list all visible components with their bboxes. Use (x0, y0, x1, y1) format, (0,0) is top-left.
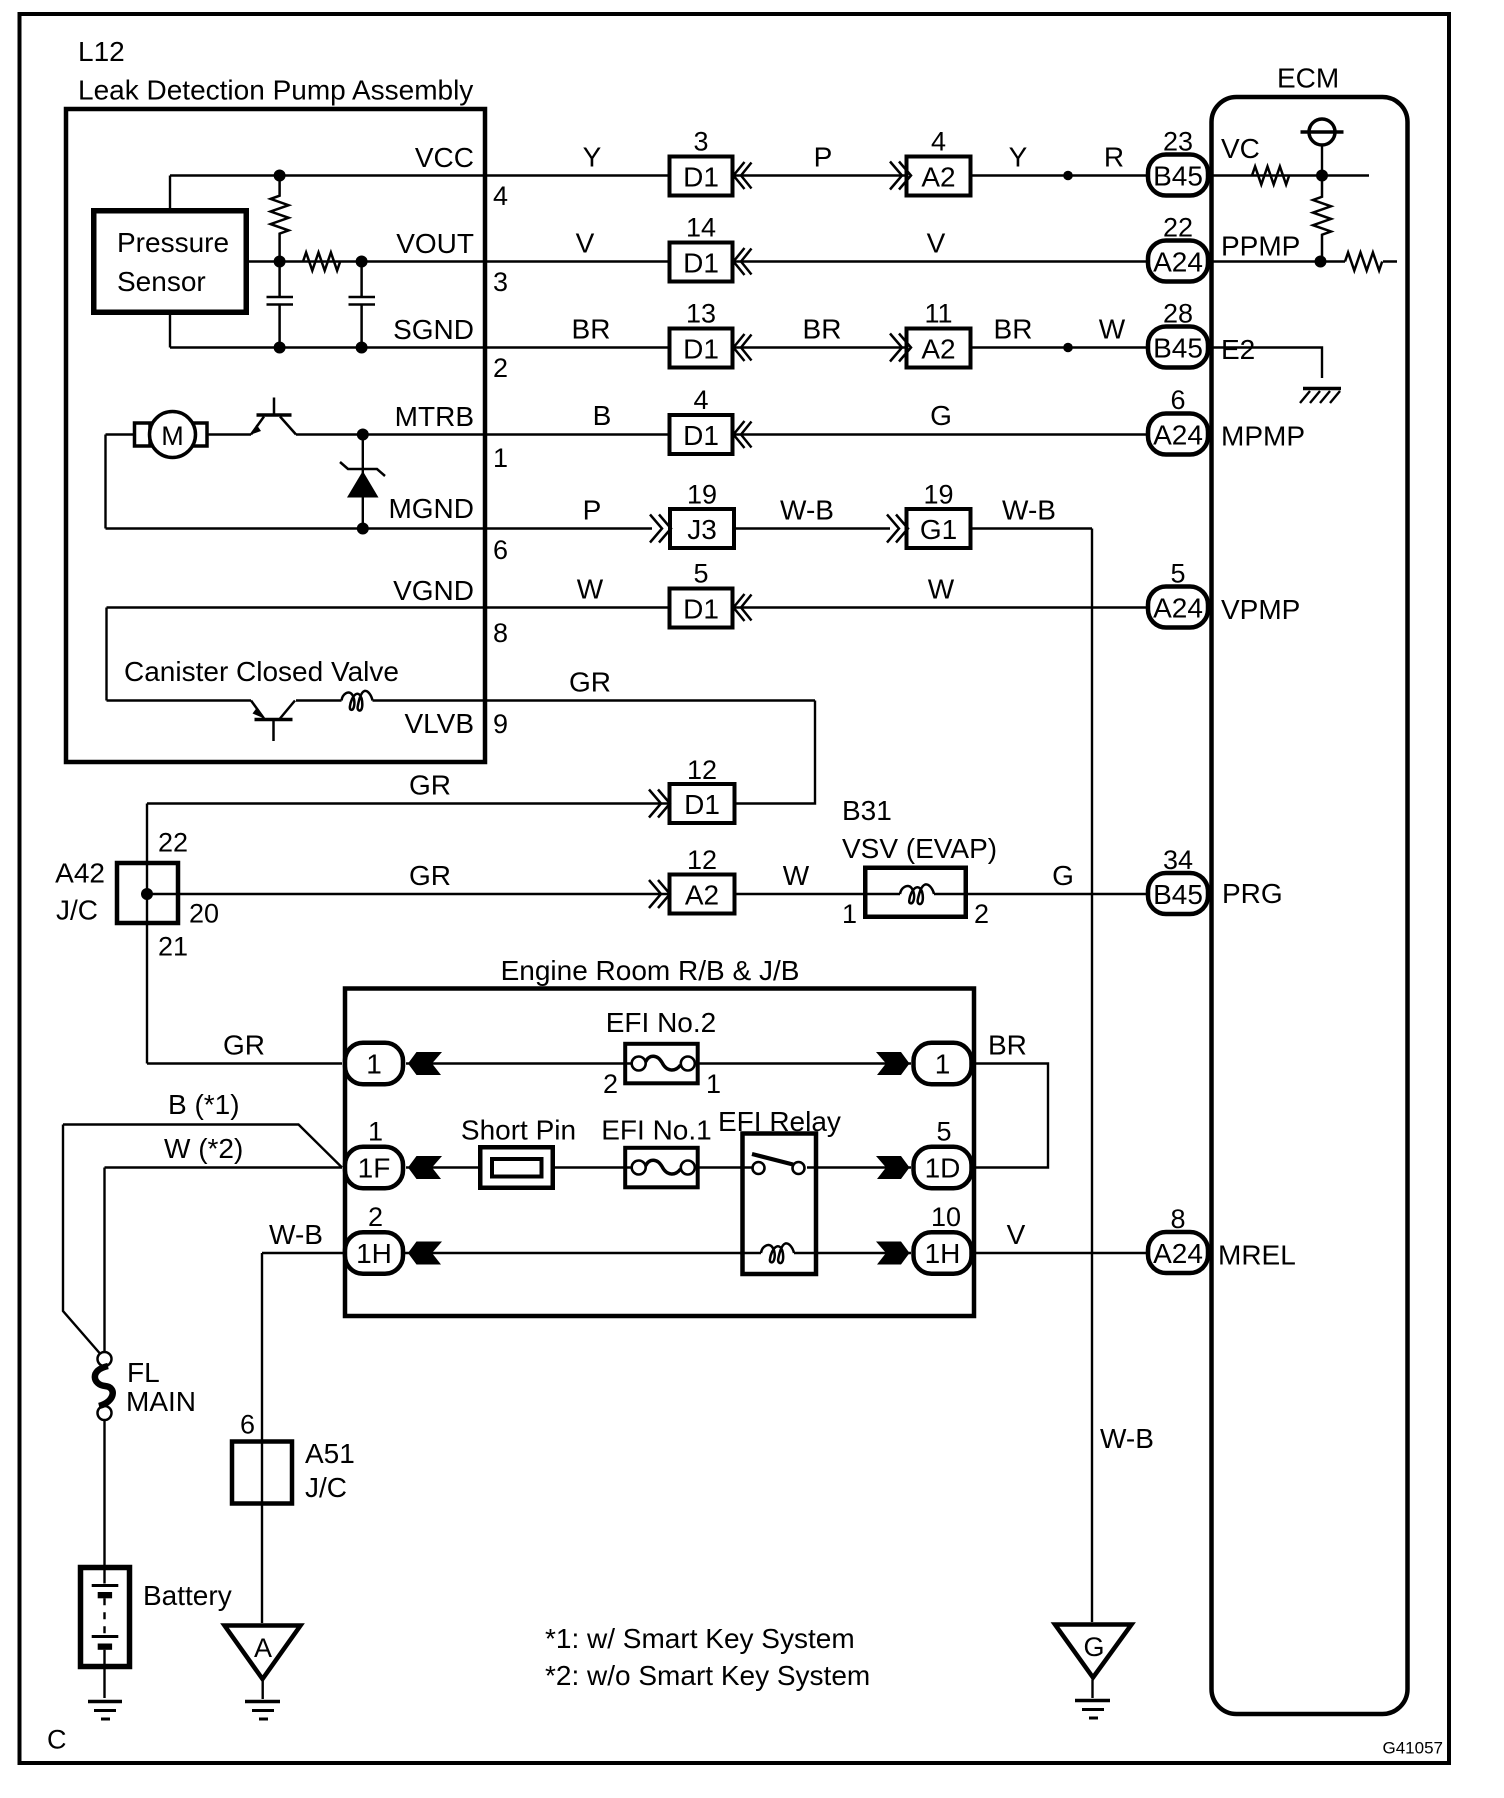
svg-text:12: 12 (687, 755, 717, 785)
svg-text:VOUT: VOUT (396, 228, 474, 259)
svg-text:Y: Y (1009, 142, 1028, 173)
wire MGND row (106, 527, 1093, 529)
wire E2 inside ECM (1211, 348, 1322, 379)
wire W vertical left (103, 1168, 105, 1353)
connector B45 row E2 (1148, 299, 1208, 368)
svg-text:22: 22 (158, 828, 188, 858)
engine room box (345, 989, 974, 1317)
svg-text:1F: 1F (358, 1153, 391, 1184)
arrow into oval 1F (408, 1156, 442, 1179)
svg-text:VSV (EVAP): VSV (EVAP) (842, 833, 997, 864)
svg-text:2: 2 (974, 899, 989, 929)
svg-text:J/C: J/C (305, 1472, 347, 1503)
svg-text:W-B: W-B (1002, 495, 1056, 526)
svg-text:6: 6 (1170, 385, 1185, 415)
svg-text:1: 1 (366, 1049, 382, 1080)
svg-text:5: 5 (936, 1117, 951, 1147)
junction A51 J/C (232, 1410, 355, 1504)
connector oval 1H right (914, 1202, 972, 1274)
wire engine row2 (406, 1166, 911, 1168)
svg-text:W-B: W-B (269, 1219, 323, 1250)
svg-text:A51: A51 (305, 1438, 355, 1469)
svg-text:W: W (783, 860, 810, 891)
ECM box (1212, 97, 1408, 1714)
ground triangle A (225, 1626, 301, 1720)
svg-text:1H: 1H (356, 1238, 392, 1269)
svg-text:B31: B31 (842, 795, 892, 826)
connector D1 row VOUT (670, 213, 752, 282)
node MTRB junction (357, 429, 369, 441)
svg-text:D1: D1 (683, 162, 719, 193)
svg-text:23: 23 (1163, 127, 1193, 157)
svg-text:G: G (930, 400, 952, 431)
arrow into oval 1D (876, 1156, 910, 1179)
svg-text:EFI No.1: EFI No.1 (601, 1115, 711, 1146)
svg-text:G: G (1052, 860, 1074, 891)
svg-text:MPMP: MPMP (1221, 421, 1305, 452)
fuse EFI No.1 (601, 1115, 711, 1188)
svg-text:V: V (1007, 1219, 1026, 1250)
connector A24 row VPMP (1148, 559, 1208, 628)
svg-text:A2: A2 (921, 334, 955, 365)
svg-text:D1: D1 (683, 594, 719, 625)
svg-text:Battery: Battery (143, 1580, 232, 1611)
wire BR corner (974, 1064, 1048, 1168)
wire VGND row (107, 606, 1147, 608)
zener diode D2 (340, 435, 385, 529)
svg-text:J/C: J/C (56, 895, 98, 926)
svg-text:V: V (927, 228, 946, 259)
svg-text:9: 9 (493, 709, 508, 739)
svg-text:D1: D1 (683, 334, 719, 365)
svg-text:E2: E2 (1221, 334, 1255, 365)
svg-text:Canister Closed Valve: Canister Closed Valve (124, 656, 399, 687)
power symbol (1301, 119, 1344, 176)
svg-text:W-B: W-B (780, 495, 834, 526)
resistor R1 vertical (271, 176, 289, 262)
motor M (135, 412, 208, 458)
svg-text:MAIN: MAIN (126, 1386, 196, 1417)
svg-text:20: 20 (189, 899, 219, 929)
wire PPMP inside ECM (1211, 260, 1397, 262)
svg-text:W: W (1099, 314, 1126, 345)
svg-text:EFI No.2: EFI No.2 (606, 1007, 716, 1038)
svg-text:B45: B45 (1153, 333, 1203, 364)
svg-text:A42: A42 (55, 858, 105, 889)
node splice VCC (1063, 171, 1073, 181)
svg-text:W-B: W-B (1100, 1423, 1154, 1454)
arrow into oval 1 (408, 1052, 442, 1075)
svg-text:J3: J3 (687, 514, 717, 545)
wire VLVB row (107, 699, 816, 701)
svg-text:3: 3 (693, 127, 708, 157)
node MGND junction (357, 523, 369, 535)
connector D1 row VCC (670, 127, 752, 196)
svg-text:GR: GR (409, 770, 451, 801)
svg-text:GR: GR (409, 860, 451, 891)
connector oval 1 left (345, 1043, 403, 1085)
relay EFI (718, 1106, 841, 1274)
svg-text:28: 28 (1163, 299, 1193, 329)
svg-text:G1: G1 (920, 514, 957, 545)
svg-text:R: R (1104, 142, 1124, 173)
arrow into right oval 1 (876, 1052, 910, 1075)
resistor PPMP (1345, 253, 1382, 271)
svg-text:B: B (593, 400, 612, 431)
wire B *1 (63, 1125, 342, 1168)
svg-text:Engine Room R/B & J/B: Engine Room R/B & J/B (501, 955, 800, 986)
svg-text:C: C (47, 1725, 67, 1755)
connector oval 1F (345, 1117, 403, 1189)
svg-text:14: 14 (686, 213, 716, 243)
battery (81, 1565, 232, 1698)
wire VGND left leg down (105, 608, 107, 701)
svg-text:21: 21 (158, 932, 188, 962)
svg-text:A24: A24 (1153, 420, 1203, 451)
svg-text:A24: A24 (1153, 1238, 1203, 1269)
svg-text:VLVB: VLVB (404, 708, 474, 739)
svg-text:5: 5 (1170, 559, 1185, 589)
connector oval 1H left (345, 1202, 403, 1274)
svg-text:1: 1 (842, 899, 857, 929)
svg-text:19: 19 (687, 480, 717, 510)
svg-text:P: P (583, 495, 602, 526)
svg-text:1: 1 (368, 1117, 383, 1147)
node PPMP junction (1315, 256, 1327, 268)
junction A42 J/C (55, 828, 219, 962)
connector D1 row MTRB (670, 385, 752, 454)
svg-text:Pressure: Pressure (117, 227, 229, 258)
connector oval 1D (914, 1117, 972, 1189)
svg-text:19: 19 (923, 480, 953, 510)
svg-text:1H: 1H (925, 1238, 961, 1269)
connector A2 row SGND (890, 299, 971, 368)
svg-text:A: A (254, 1633, 272, 1663)
wire A42 vertical (146, 804, 148, 1064)
svg-text:1: 1 (706, 1069, 721, 1099)
wire PRG row (147, 893, 1146, 895)
wire VCC riser from pressure sensor (169, 176, 171, 209)
node SGND junction 1 (274, 342, 286, 354)
svg-text:13: 13 (686, 299, 716, 329)
svg-text:MREL: MREL (1218, 1240, 1296, 1271)
connector A24 row MPMP (1148, 385, 1208, 455)
svg-text:B45: B45 (1153, 161, 1203, 192)
wire W *2 (105, 1166, 343, 1168)
wire VLVB to D1 12 (735, 701, 815, 804)
svg-text:VCC: VCC (415, 142, 474, 173)
node splice SGND (1063, 343, 1073, 353)
inductor canister valve coil (342, 691, 373, 711)
svg-text:P: P (814, 142, 833, 173)
svg-text:4: 4 (693, 385, 708, 415)
svg-text:12: 12 (687, 845, 717, 875)
svg-text:W (*2): W (*2) (164, 1133, 243, 1164)
arrow into oval 1H right (876, 1242, 910, 1265)
svg-text:MGND: MGND (388, 493, 474, 524)
svg-text:11: 11 (924, 299, 952, 329)
transistor Q2 (251, 701, 295, 742)
svg-text:G41057: G41057 (1383, 1739, 1444, 1758)
fusible link FL MAIN (95, 1352, 196, 1420)
svg-text:BR: BR (572, 314, 611, 345)
svg-text:*1: w/ Smart Key System: *1: w/ Smart Key System (545, 1623, 855, 1654)
fuse EFI No.2 (603, 1007, 721, 1099)
svg-text:Sensor: Sensor (117, 266, 206, 297)
svg-text:PRG: PRG (1222, 878, 1283, 909)
svg-text:ECM: ECM (1277, 63, 1339, 94)
svg-text:A24: A24 (1153, 593, 1203, 624)
svg-text:GR: GR (569, 667, 611, 698)
svg-text:10: 10 (931, 1202, 961, 1232)
svg-text:A2: A2 (685, 880, 719, 911)
svg-text:*2: w/o Smart Key System: *2: w/o Smart Key System (545, 1660, 870, 1691)
wire engine row3 (262, 1252, 911, 1254)
wire GR to engine room (147, 1062, 342, 1064)
connector A2 12 (649, 845, 735, 914)
node VC junction (1316, 170, 1328, 182)
connector D1 12 (649, 755, 735, 823)
wire VOUT row (249, 260, 1146, 262)
capacitor C1 (267, 262, 294, 348)
node SGND junction 2 (356, 342, 368, 354)
wire VC inside ECM (1211, 174, 1369, 176)
connector oval 1 right (914, 1043, 972, 1085)
wire W-B down to A51 (261, 1253, 263, 1623)
svg-text:VPMP: VPMP (1221, 594, 1300, 625)
node VOUT junction 2 (356, 256, 368, 268)
svg-text:VGND: VGND (393, 575, 474, 606)
svg-text:Y: Y (583, 142, 602, 173)
svg-text:6: 6 (493, 535, 508, 565)
svg-text:5: 5 (693, 559, 708, 589)
arrow into oval 1H left (408, 1242, 442, 1265)
short pin (461, 1115, 576, 1188)
svg-text:2: 2 (368, 1202, 383, 1232)
svg-text:D1: D1 (683, 248, 719, 279)
connector G1 row MGND (887, 480, 971, 549)
svg-text:D1: D1 (683, 420, 719, 451)
wire fuse to battery (103, 1420, 105, 1565)
svg-text:Short Pin: Short Pin (461, 1115, 576, 1146)
svg-text:6: 6 (240, 1410, 255, 1440)
svg-text:L12: L12 (78, 36, 125, 67)
wire SGND riser from pressure sensor (169, 315, 171, 348)
svg-text:A24: A24 (1153, 247, 1203, 278)
wire motor left leg (104, 435, 106, 529)
svg-text:B45: B45 (1153, 879, 1203, 910)
wire MTRB row (106, 433, 1147, 435)
svg-text:SGND: SGND (393, 314, 474, 345)
svg-text:8: 8 (1170, 1204, 1185, 1234)
svg-text:BR: BR (994, 314, 1033, 345)
svg-text:34: 34 (1163, 845, 1193, 875)
wire GR to D1 12 (147, 802, 669, 804)
connector D1 row SGND (670, 299, 752, 368)
connector B45 row VC (1148, 127, 1208, 196)
svg-text:BR: BR (988, 1030, 1027, 1061)
leak detection pump assembly box (66, 109, 485, 762)
ground triangle G (1055, 1625, 1132, 1719)
svg-text:8: 8 (493, 618, 508, 648)
transistor Q1 (251, 398, 296, 435)
svg-text:BR: BR (803, 314, 842, 345)
connector A2 row VCC (890, 127, 971, 196)
ground battery (88, 1702, 122, 1720)
svg-text:1: 1 (935, 1049, 951, 1080)
svg-text:A2: A2 (921, 162, 955, 193)
svg-text:PPMP: PPMP (1221, 231, 1300, 262)
resistor R2 horizontal (303, 253, 340, 271)
capacitor C2 (349, 262, 376, 348)
chassis ground E2 (1300, 389, 1341, 404)
wire MREL row (974, 1252, 1146, 1254)
svg-text:4: 4 (931, 127, 946, 157)
svg-text:1: 1 (493, 443, 508, 473)
svg-text:D1: D1 (684, 789, 720, 820)
resistor vertical ECM (1313, 176, 1331, 262)
svg-text:M: M (161, 421, 184, 451)
connector D1 row VGND (670, 559, 752, 628)
solenoid valve VSV (842, 868, 989, 929)
svg-text:2: 2 (493, 353, 508, 383)
connector A24 row MREL (1148, 1204, 1208, 1273)
wire VCC row (170, 174, 1146, 176)
pressure sensor box (94, 211, 247, 313)
connector A24 row PPMP (1148, 213, 1208, 282)
svg-text:V: V (576, 228, 595, 259)
svg-text:Leak Detection Pump Assembly: Leak Detection Pump Assembly (78, 75, 473, 106)
svg-text:1D: 1D (925, 1153, 961, 1184)
wire engine row1 (406, 1062, 911, 1064)
svg-text:G: G (1083, 1632, 1104, 1662)
node VOUT junction 1 (274, 256, 286, 268)
node VCC junction (274, 170, 286, 182)
svg-text:4: 4 (493, 181, 508, 211)
svg-text:VC: VC (1221, 133, 1260, 164)
svg-text:FL: FL (127, 1357, 160, 1388)
svg-text:GR: GR (223, 1030, 265, 1061)
wire B vertical left (63, 1125, 100, 1354)
resistor VC (1252, 167, 1289, 185)
svg-text:2: 2 (603, 1069, 618, 1099)
connector J3 row MGND (650, 480, 734, 549)
svg-text:B (*1): B (*1) (168, 1089, 240, 1120)
svg-text:MTRB: MTRB (395, 401, 474, 432)
svg-text:W: W (577, 574, 604, 605)
connector B45 row PRG (1148, 845, 1208, 914)
svg-text:3: 3 (493, 267, 508, 297)
svg-text:22: 22 (1163, 213, 1193, 243)
svg-text:W: W (928, 574, 955, 605)
wire SGND row (170, 346, 1146, 348)
wire W-B vertical to ground G (1091, 529, 1093, 1623)
